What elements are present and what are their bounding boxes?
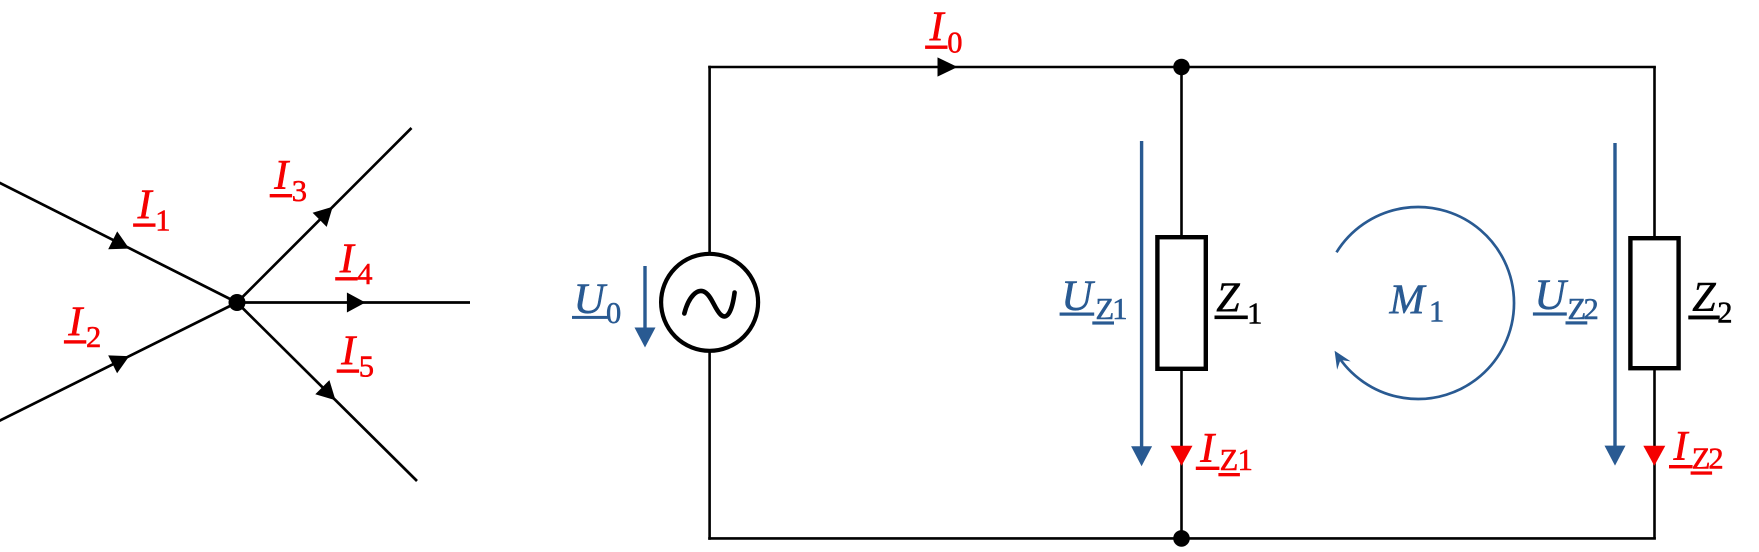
wire middle branch upper: [1180, 67, 1183, 237]
svg-text:I: I: [137, 183, 154, 229]
svg-text:5: 5: [359, 349, 374, 383]
impedance Z2: [1630, 238, 1678, 368]
svg-text:I: I: [929, 5, 946, 51]
wire left lower (source to corner): [708, 349, 711, 540]
svg-text:Z: Z: [1692, 275, 1716, 321]
voltage arrow UZ2: [1613, 143, 1616, 446]
node A (top junction dot): [1173, 59, 1190, 76]
svg-text:I: I: [1199, 426, 1216, 472]
arrowhead I1: [108, 231, 129, 249]
svg-text:1: 1: [1247, 296, 1262, 330]
svg-text:I: I: [339, 236, 356, 282]
svg-text:2: 2: [1717, 296, 1732, 330]
voltage source U0 (AC source): [661, 254, 758, 351]
wire middle branch lower: [1180, 369, 1183, 538]
mesh arrow M1 (counterclockwise): [1337, 207, 1515, 399]
wire right lower: [1653, 368, 1656, 538]
svg-text:I: I: [273, 153, 290, 199]
svg-text:0: 0: [947, 26, 962, 60]
svg-text:I: I: [340, 329, 357, 375]
svg-text:3: 3: [292, 174, 307, 208]
node B (bottom junction dot): [1173, 530, 1190, 547]
voltage arrow U0: [643, 266, 646, 330]
wire I4 (outgoing horizontal right): [237, 301, 470, 304]
svg-text:4: 4: [357, 257, 372, 291]
svg-text:Z: Z: [1216, 275, 1240, 321]
arrowhead I0: [938, 57, 958, 76]
arrowhead I4: [347, 293, 366, 313]
svg-text:2: 2: [1584, 292, 1599, 326]
arrowhead I2: [108, 355, 129, 373]
wire left upper (corner to source): [708, 66, 711, 256]
wire bottom: [708, 537, 1656, 540]
svg-text:I: I: [1673, 424, 1690, 470]
wire I1 (incoming from upper left): [0, 182, 237, 303]
svg-text:1: 1: [1429, 294, 1444, 328]
svg-text:U: U: [1534, 271, 1568, 319]
wire top: [708, 66, 1656, 69]
current arrow IZ2: [1643, 446, 1665, 466]
svg-text:2: 2: [1708, 442, 1723, 476]
node K junction dot: [229, 294, 246, 311]
svg-text:0: 0: [606, 296, 621, 330]
wire I3 (outgoing to upper right): [237, 128, 412, 303]
svg-text:1: 1: [1238, 443, 1253, 477]
arrowhead I5: [315, 380, 335, 400]
sine symbol: [684, 291, 734, 316]
svg-text:2: 2: [86, 320, 101, 354]
svg-text:1: 1: [1112, 292, 1127, 326]
current arrow IZ1: [1171, 446, 1193, 466]
svg-text:I: I: [67, 299, 84, 345]
svg-text:Z: Z: [1220, 443, 1239, 477]
svg-text:1: 1: [155, 203, 170, 237]
impedance Z1: [1157, 237, 1205, 369]
arrowhead M1: [1335, 351, 1351, 370]
svg-text:M: M: [1389, 278, 1427, 324]
wire right upper: [1653, 67, 1656, 238]
voltage arrow UZ1: [1140, 141, 1143, 447]
arrowhead I3: [313, 207, 333, 227]
wire I5 (outgoing to lower right): [237, 303, 417, 482]
wire I2 (incoming from lower left): [0, 303, 237, 423]
